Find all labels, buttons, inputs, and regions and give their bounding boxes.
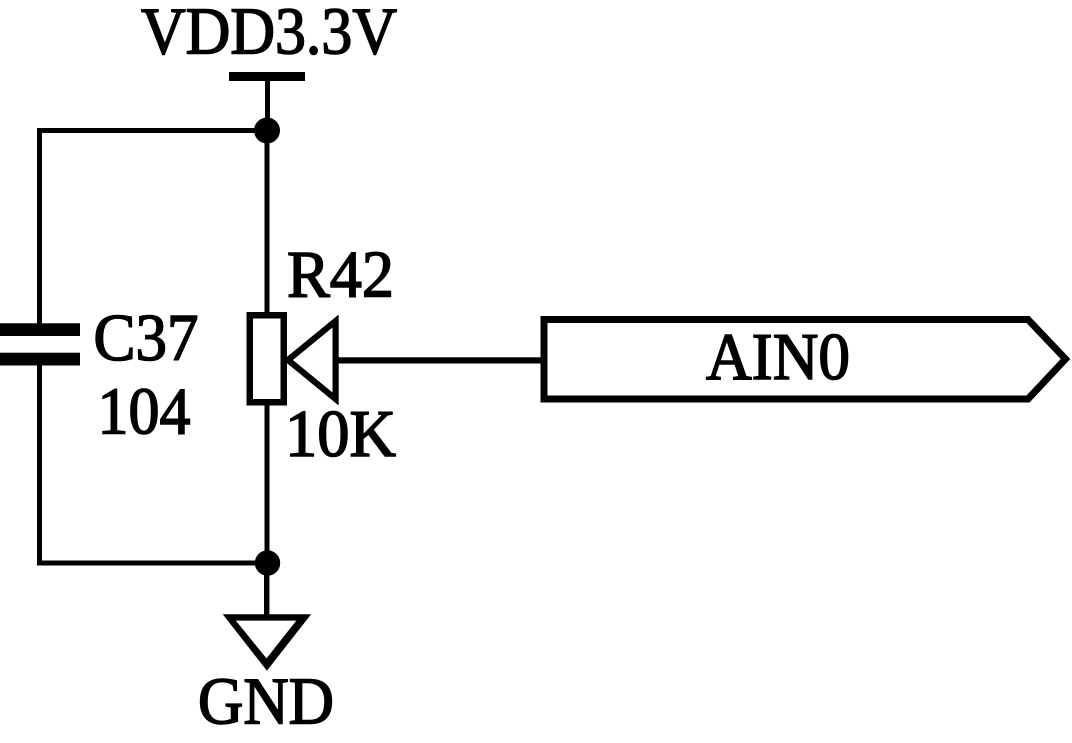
svg-text:R42: R42 [287,239,394,312]
capacitor C37 bottom plate [0,353,80,366]
svg-text:GND: GND [198,666,334,739]
wire: node B down to ground [264,563,269,616]
wire: capacitor down to bottom rail [37,365,42,565]
svg-text:10K: 10K [285,398,396,471]
node A junction dot [254,118,280,144]
power symbol VDD3.3V bar [229,72,305,81]
svg-text:VDD3.3V: VDD3.3V [141,0,397,69]
wire: node A down to resistor R42 [265,140,270,315]
node B junction dot [255,550,280,575]
wiper arrow of R42 [288,321,336,399]
svg-text:AIN0: AIN0 [706,321,850,394]
resistor R42 body [250,315,284,402]
ground symbol triangle [223,614,311,671]
wire: resistor R42 to node B [265,403,270,563]
svg-text:C37: C37 [94,302,199,375]
wire: bottom rail to node B [37,561,268,566]
capacitor C37 top plate [0,323,80,336]
wire: left branch down to capacitor [37,128,42,324]
wire: wiper to AIN0 port [334,357,544,363]
wire: node A to left branch [37,128,268,133]
wire: power bar to node A [265,76,270,132]
port flag AIN0 outline [544,320,1066,400]
svg-text:104: 104 [98,376,191,449]
